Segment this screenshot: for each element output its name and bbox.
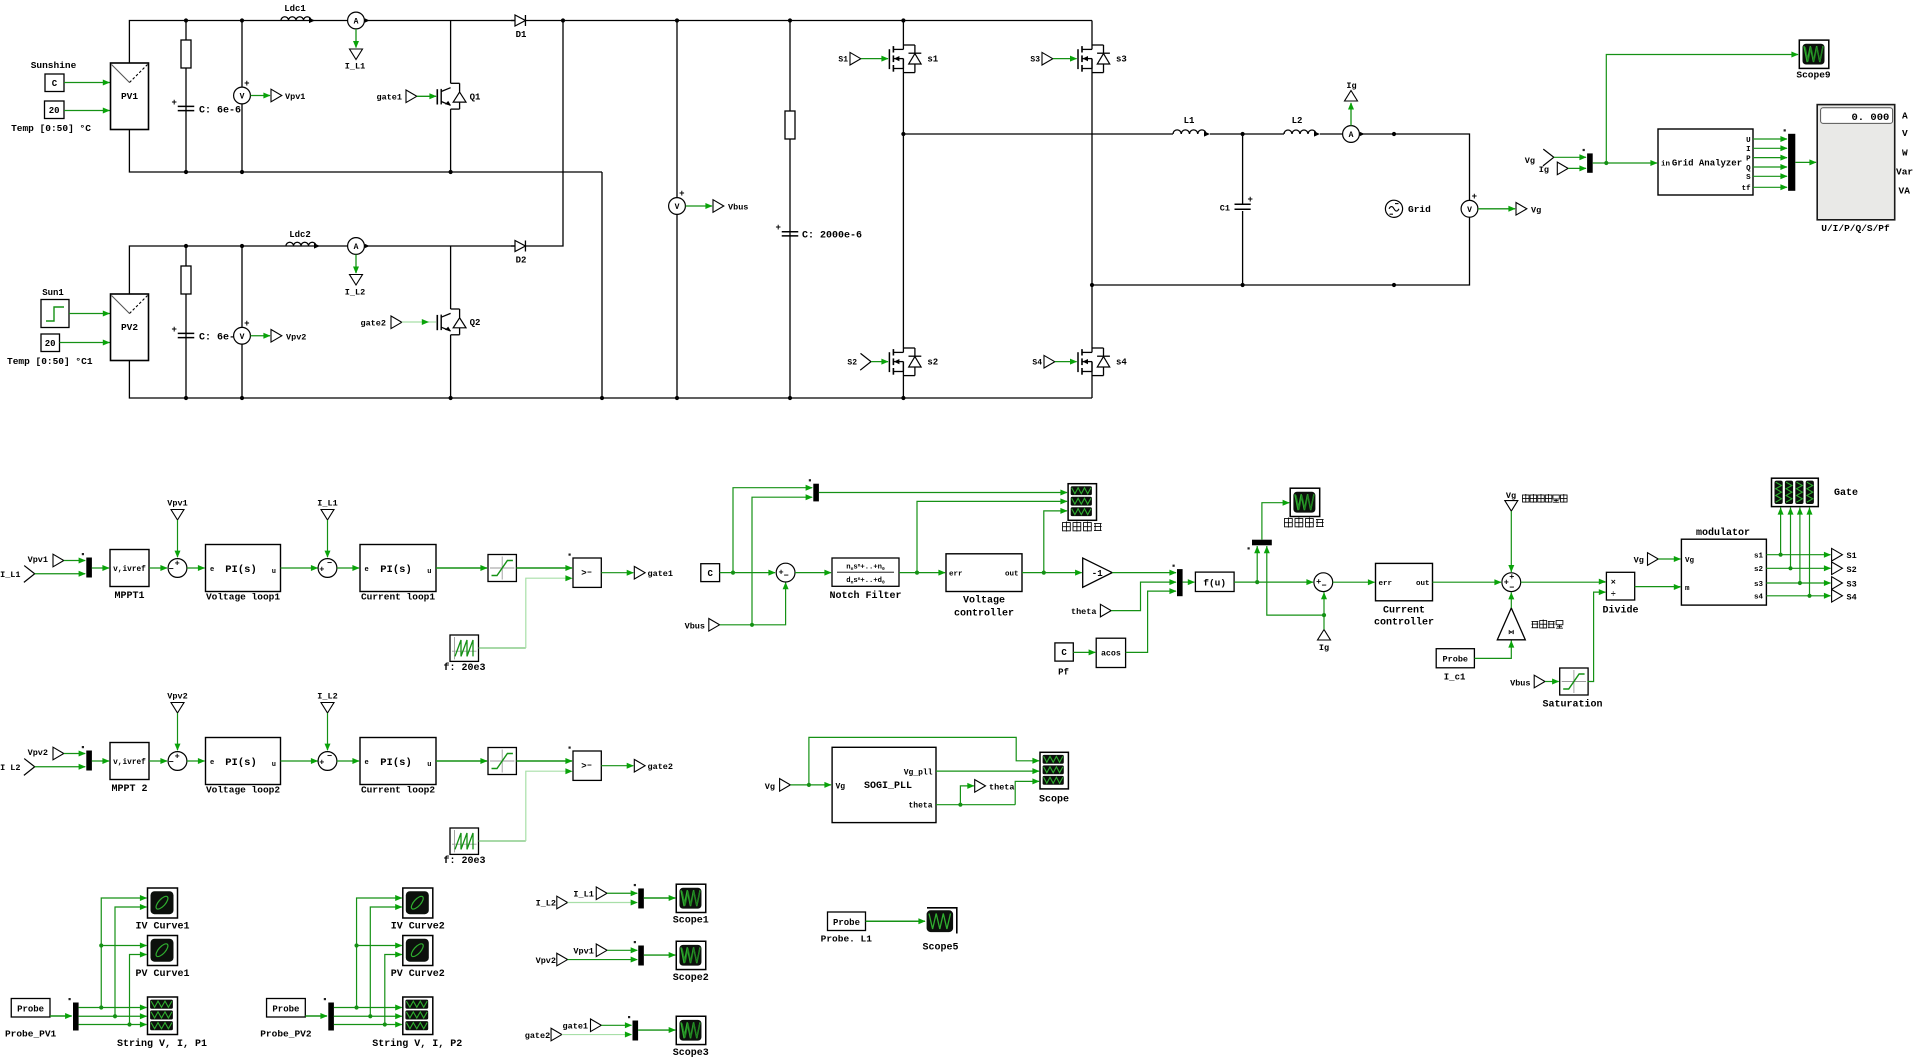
capacitor C: 2000e-6 (DC bus) <box>782 231 799 233</box>
svg-text:f: 20e3: f: 20e3 <box>443 662 485 674</box>
capacitor C: 6e-6 (PV2) <box>178 332 195 334</box>
wire Probe to demux <box>50 1015 72 1017</box>
svg-text:Scope5: Scope5 <box>922 943 958 954</box>
svg-text:I_L1: I_L1 <box>573 889 593 899</box>
comparator block <box>573 751 601 780</box>
svg-text:P: P <box>1746 155 1751 163</box>
output tag Vg <box>1516 203 1527 216</box>
wire Vg branch to PLL scope input1 <box>809 737 1039 785</box>
svg-text:Gate: Gate <box>1834 488 1858 499</box>
svg-text:C: 6e-6: C: 6e-6 <box>199 106 241 117</box>
wire mux to Grid Analyzer <box>1593 162 1657 164</box>
sum junction (current error) <box>318 559 337 578</box>
wire ref branch to scope mux <box>733 488 812 573</box>
output tag Vbus <box>713 200 724 213</box>
svg-text:C1: C1 <box>1220 204 1230 214</box>
svg-text:+: + <box>319 757 324 767</box>
svg-text:u: u <box>427 761 431 769</box>
wire S1 to s1 gate <box>861 58 888 60</box>
wire branch to current-scope mux port1 <box>1256 546 1258 582</box>
svg-text:−: − <box>327 752 332 762</box>
svg-text:I L2: I L2 <box>0 763 20 773</box>
wire gate2 to mux <box>562 1034 632 1036</box>
svg-text:−: − <box>169 565 174 575</box>
wire probe out2 (I) <box>79 1015 147 1017</box>
gain -1 <box>1083 558 1113 587</box>
svg-text:+: + <box>175 558 180 568</box>
wire L1 to L2 <box>1210 133 1284 135</box>
output tag Vpv1 <box>271 89 282 102</box>
svg-text:Current loop2: Current loop2 <box>361 785 435 796</box>
wire Pf to acos <box>1073 651 1095 653</box>
svg-text:Probe: Probe <box>17 1004 44 1014</box>
wire Vpv2 to mux <box>64 753 85 755</box>
svg-text:V: V <box>1902 128 1908 139</box>
svg-text:s4: s4 <box>1754 594 1764 602</box>
svg-text:+: + <box>1316 577 1321 587</box>
wire Divide to modulator <box>1635 586 1681 588</box>
block Current loop2 PI(s) <box>360 738 436 785</box>
svg-text:gate2: gate2 <box>648 762 674 772</box>
step source Sun1 <box>41 300 69 328</box>
svg-text:Voltage loop1: Voltage loop1 <box>206 592 280 603</box>
mux f(u) input <box>1177 569 1183 596</box>
sawtooth generator f: 20e3 <box>450 828 479 854</box>
wire saturation to comparator <box>516 760 572 762</box>
voltmeter V (Vpv1) <box>241 21 243 173</box>
wire Notch Filter to Voltage controller <box>899 572 945 574</box>
svg-text:I_L1: I_L1 <box>0 570 20 580</box>
svg-text:−: − <box>1509 583 1514 593</box>
svg-text:C: C <box>1061 648 1067 658</box>
wire theta branch to theta tag <box>960 786 974 805</box>
svg-text:+: + <box>776 223 781 233</box>
block Current controller <box>1376 563 1433 600</box>
block acos <box>1096 638 1125 667</box>
svg-text:e: e <box>210 566 214 574</box>
constant block C (Vbus ref) <box>701 564 720 582</box>
svg-text:+: + <box>1504 578 1509 588</box>
wire mux to current scope <box>1262 503 1289 540</box>
display U/I/P/Q/S/Pf <box>1817 105 1895 220</box>
block Grid Analyzer <box>1658 129 1753 195</box>
svg-text:D2: D2 <box>516 256 527 266</box>
svg-text:MPPT 2: MPPT 2 <box>111 784 147 795</box>
svg-text:tf: tf <box>1742 185 1752 193</box>
svg-text:Scope9: Scope9 <box>1796 70 1831 81</box>
mux voltage-scope <box>813 484 819 502</box>
wire A to I_L1 tag <box>355 29 357 48</box>
wire gain to mux4 port1 <box>1112 572 1176 574</box>
svg-text:+: + <box>1509 572 1514 582</box>
svg-text:Vpv1: Vpv1 <box>167 499 187 509</box>
svg-text:W: W <box>1902 147 1908 158</box>
wire Vg down to sum5 <box>1510 511 1512 572</box>
svg-text:20: 20 <box>45 339 56 349</box>
svg-text:s3: s3 <box>1116 55 1127 65</box>
svg-text:err: err <box>1379 580 1393 588</box>
mosfet s3 <box>1077 49 1079 69</box>
svg-text:Probe: Probe <box>1443 655 1469 665</box>
wire saturation to comparator <box>516 567 572 569</box>
svg-text:Pf: Pf <box>1058 668 1069 678</box>
wire mux to MPPT <box>92 760 109 762</box>
svg-text:Vpv2: Vpv2 <box>167 692 187 702</box>
scope Gate <box>1772 478 1819 506</box>
svg-text:Q: Q <box>1746 165 1751 173</box>
transistor Q1 (IGBT) <box>450 21 452 84</box>
constant block 20 (Temp1) <box>41 334 60 352</box>
voltmeter V (Vg) <box>1461 200 1478 217</box>
wire Vbus to sum3 bottom <box>720 583 786 625</box>
wire Ig to mux <box>1568 167 1586 169</box>
svg-text:C: C <box>52 79 58 89</box>
block Probe (Probe. L1) <box>828 912 866 931</box>
output tag gate2 <box>634 759 645 772</box>
svg-text:IV Curve2: IV Curve2 <box>391 922 445 933</box>
transistor Q2 (IGBT) <box>450 246 452 309</box>
svg-text:Vpv2: Vpv2 <box>286 333 306 343</box>
svg-text:I_L1: I_L1 <box>345 62 365 72</box>
svg-text:S: S <box>1746 174 1751 182</box>
wire C to sum3 <box>720 572 775 574</box>
wire Vbus to Saturation <box>1545 681 1559 683</box>
constant block 20 (Temp) <box>45 101 65 119</box>
wire gate1 to mux <box>601 1024 631 1026</box>
svg-text:gate2: gate2 <box>525 1031 551 1041</box>
wire Saturation to Divide <box>1587 592 1605 681</box>
svg-text:Q1: Q1 <box>470 92 481 102</box>
svg-text:Probe. L1: Probe. L1 <box>821 934 873 945</box>
svg-text:PV Curve1: PV Curve1 <box>135 969 189 980</box>
mux grid-analyzer output <box>1788 134 1795 191</box>
wire sum2 to current loop <box>337 567 359 569</box>
svg-text:S4: S4 <box>1847 592 1857 602</box>
svg-text:controller: controller <box>1374 617 1434 629</box>
scope Scope3 <box>676 1016 706 1044</box>
svg-text:Vpv1: Vpv1 <box>28 555 48 565</box>
wire Current controller to sum5 <box>1433 581 1502 583</box>
wire probe out3 (P) <box>79 1024 147 1026</box>
svg-text:C: C <box>707 569 713 579</box>
wire bridge left leg <box>902 21 904 46</box>
svg-text:v,ivref: v,ivref <box>113 566 146 574</box>
voltmeter V (Vpv2) <box>241 246 243 398</box>
svg-text:u: u <box>427 568 431 576</box>
wire MPPT to sum1 <box>149 760 167 762</box>
wire Vpv2 to sum1 <box>177 713 179 750</box>
mosfet s1 <box>888 49 890 69</box>
wire mux to Scope2 <box>644 954 675 956</box>
svg-text:−: − <box>327 559 332 569</box>
scope Scope2 <box>676 941 706 969</box>
wire I L2 to mux <box>35 766 85 768</box>
svg-text:Probe: Probe <box>272 1004 299 1014</box>
wire Vg to mux <box>1554 156 1586 158</box>
saturation block <box>488 748 516 775</box>
svg-text:PI(s): PI(s) <box>380 757 412 769</box>
sum junction sum3 (Vbus error) <box>776 563 795 582</box>
mux mppt input <box>86 751 92 771</box>
scope String V, I, P2 <box>403 997 433 1035</box>
block Probe (Probe_PV2) <box>267 999 306 1018</box>
block Notch Filter <box>832 558 899 586</box>
output tag theta <box>975 780 986 793</box>
svg-text:+: + <box>172 98 177 108</box>
svg-text:Vpv1: Vpv1 <box>285 92 305 102</box>
svg-text:Vbus: Vbus <box>685 621 705 631</box>
ammeter A (Ig) <box>1343 126 1360 143</box>
voltmeter V (Vbus) <box>676 21 678 399</box>
svg-text:u: u <box>272 761 276 769</box>
wire mux to display <box>1795 161 1816 163</box>
svg-text:gate1: gate1 <box>648 569 674 579</box>
svg-text:Vg_pll: Vg_pll <box>904 768 933 777</box>
svg-text:Probe: Probe <box>833 918 860 928</box>
inductor Ldc1 <box>281 17 311 21</box>
svg-text:Notch Filter: Notch Filter <box>829 590 901 602</box>
diode D1 <box>511 20 515 22</box>
wire comparator to gate1 <box>601 572 633 574</box>
comparator block <box>573 558 601 587</box>
wire Vpv1 to sum1 <box>177 520 179 557</box>
mux Scope1 <box>638 888 644 908</box>
scope IV Curve1 <box>148 888 178 918</box>
svg-text:String V, I, P1: String V, I, P1 <box>117 1038 207 1050</box>
svg-text:V: V <box>240 333 245 342</box>
wire branch to Scope9 <box>1606 55 1798 164</box>
wire comparator to gate2 <box>601 765 633 767</box>
wire bridge midpoint left to L1 <box>903 133 1173 135</box>
svg-text:+: + <box>172 325 177 335</box>
AC source Grid <box>1385 200 1402 217</box>
scope Scope (PLL) <box>1040 752 1068 789</box>
output tag I_L2 (down) <box>350 275 363 286</box>
wire Probe to gain <box>1474 641 1511 659</box>
wire theta to PLL scope input3 <box>1015 781 1039 804</box>
wire acos to mux4 port3 <box>1126 591 1176 652</box>
svg-text:Scope3: Scope3 <box>673 1048 709 1059</box>
wire 20 to PV1 <box>64 110 110 112</box>
svg-text:SOGI_PLL: SOGI_PLL <box>864 781 912 792</box>
wire Ig up to sum4 <box>1323 592 1325 629</box>
wire PV2 top rail <box>129 246 515 294</box>
svg-text:Ig: Ig <box>1346 81 1356 91</box>
svg-text:A: A <box>354 243 359 252</box>
svg-text:s4: s4 <box>1116 358 1127 368</box>
scope Scope1 <box>676 884 706 912</box>
svg-text:Sun1: Sun1 <box>42 288 64 298</box>
svg-text:Vg: Vg <box>1634 556 1644 566</box>
svg-text:Scope1: Scope1 <box>673 916 709 927</box>
svg-text:A: A <box>1349 131 1354 140</box>
svg-text:C: 2000e-6: C: 2000e-6 <box>802 231 862 242</box>
svg-text:theta: theta <box>1071 607 1097 617</box>
svg-text:gate2: gate2 <box>360 319 386 329</box>
wire theta to mux4 port2 <box>1111 582 1176 611</box>
scope PV Curve2 <box>403 936 433 966</box>
svg-text:S2: S2 <box>847 359 857 368</box>
svg-text:PI(s): PI(s) <box>225 757 257 769</box>
input tag Ig (up) <box>1318 630 1331 641</box>
svg-text:÷: ÷ <box>1611 589 1616 599</box>
mux grid-analyzer input <box>1587 153 1593 172</box>
wire sawtooth to comparator <box>479 840 526 842</box>
wire notch branch to scope 2nd input <box>917 501 1067 572</box>
svg-text:+: + <box>1248 195 1253 205</box>
block Voltage loop1 PI(s) <box>206 545 281 592</box>
wire S4 to s4 gate <box>1055 361 1077 363</box>
output tags S1 S2 S3 S4 <box>1832 548 1843 561</box>
svg-text:A: A <box>354 18 359 27</box>
svg-text:err: err <box>949 570 963 578</box>
wire current loop to saturation <box>436 760 487 762</box>
svg-text:Vpv2: Vpv2 <box>28 748 48 758</box>
wire probe out3 (P) <box>334 1024 402 1026</box>
svg-text:Probe_PV2: Probe_PV2 <box>260 1029 312 1040</box>
svg-text:PI(s): PI(s) <box>380 564 412 576</box>
wire PV1-neg to PV2-neg link <box>601 172 603 398</box>
svg-text:Current loop1: Current loop1 <box>361 592 435 603</box>
wire D2 cathode to top rail riser <box>526 21 564 247</box>
wire I_L1 to mux <box>607 892 637 894</box>
svg-text:L1: L1 <box>1184 116 1195 126</box>
svg-text:m: m <box>1685 585 1690 593</box>
svg-text:Scope: Scope <box>1039 795 1069 806</box>
svg-text:S3: S3 <box>1030 56 1040 65</box>
svg-text:PV1: PV1 <box>121 91 138 102</box>
scope Scope9 <box>1799 40 1829 68</box>
mux current-scope (horizontal) <box>1252 540 1272 546</box>
wire Ig branch to current-scope mux port2 <box>1267 546 1324 615</box>
svg-text:L2: L2 <box>1292 116 1303 126</box>
wire V to Vpv1 tag <box>251 95 271 97</box>
scope dianliu-genzong (current tracking) <box>1290 488 1320 516</box>
svg-text:modulator: modulator <box>1696 527 1750 539</box>
svg-text:in: in <box>1661 161 1671 169</box>
wire mux to scope 1st input <box>819 492 1067 494</box>
wire gate2 to Q2 (light) <box>402 321 436 323</box>
svg-text:A: A <box>1902 110 1908 121</box>
wire mux to MPPT <box>92 567 109 569</box>
ammeter A (I_L1) <box>348 12 365 29</box>
svg-text:+: + <box>175 751 180 761</box>
sum junction sum5 (feedforward) <box>1502 573 1521 592</box>
block SOGI_PLL <box>832 747 936 822</box>
wire sum4 to Current controller <box>1333 581 1375 583</box>
svg-text:V: V <box>240 93 245 102</box>
svg-text:S3: S3 <box>1847 580 1857 590</box>
wire theta out <box>936 804 1015 806</box>
PV array block PV2 <box>111 294 149 361</box>
resistor R-pv2 <box>185 246 187 398</box>
wire Vg to modulator <box>1658 558 1680 560</box>
svg-text:Grid: Grid <box>1408 204 1431 215</box>
svg-text:+: + <box>1472 192 1477 202</box>
wire Vpv2 to mux <box>568 959 638 961</box>
svg-text:Grid Analyzer: Grid Analyzer <box>1672 159 1742 169</box>
wire I_L2 to mux <box>568 902 638 904</box>
svg-text:PI(s): PI(s) <box>225 564 257 576</box>
wire Vg to SOGI_PLL <box>790 784 831 786</box>
wire sawtooth to comparator <box>479 647 526 649</box>
svg-text:−: − <box>169 758 174 768</box>
scope Scope5 <box>927 908 957 934</box>
wire PV1 bottom rail <box>129 130 602 173</box>
svg-text:U: U <box>1746 137 1751 145</box>
scope dianya-genzong (voltage tracking) <box>1068 484 1096 521</box>
scope String V, I, P1 <box>148 997 178 1035</box>
svg-text:Scope2: Scope2 <box>673 973 709 984</box>
svg-text:U/I/P/Q/S/Pf: U/I/P/Q/S/Pf <box>1821 223 1890 234</box>
capacitor C1 branch <box>1242 134 1244 204</box>
svg-text:Vg: Vg <box>836 783 846 792</box>
wire I_L1 to mux <box>35 573 85 575</box>
svg-text:S1: S1 <box>838 56 848 65</box>
wire mux to Scope1 <box>644 897 675 899</box>
svg-text:−: − <box>1322 581 1327 591</box>
svg-text:−: − <box>784 571 789 581</box>
wire Vpv1 to mux <box>607 949 637 951</box>
gain youyuan-zuni (active damping) <box>1497 608 1525 640</box>
svg-text:theta: theta <box>989 783 1015 793</box>
svg-text:f(u): f(u) <box>1203 577 1226 588</box>
wire current loop to saturation <box>436 567 487 569</box>
mux Scope3 <box>633 1021 639 1041</box>
constant block C (Sunshine) <box>45 74 64 92</box>
mux Scope2 <box>638 946 644 966</box>
svg-text:Vbus: Vbus <box>728 203 748 213</box>
wire Voltage controller to gain -1 <box>1022 572 1082 574</box>
demux probe <box>73 1003 79 1031</box>
wire PV2 bottom rail <box>129 361 1092 399</box>
svg-text:–: – <box>587 567 592 577</box>
saturation block (Vbus) <box>1560 668 1588 695</box>
svg-text:Probe_PV1: Probe_PV1 <box>5 1029 57 1040</box>
wire PV1 top rail <box>129 21 1092 64</box>
svg-text:+: + <box>679 189 684 199</box>
block MPPT 2 <box>110 743 149 780</box>
wire Vbus branch to scope mux <box>752 497 812 625</box>
block Current loop1 PI(s) <box>360 545 436 592</box>
wire I_L1 to sum2 <box>327 520 329 557</box>
block Probe I_c1 <box>1436 649 1474 668</box>
svg-text:S2: S2 <box>1847 565 1857 575</box>
wire out branch to scope 3rd input <box>1044 511 1067 573</box>
resistor R-dc <box>789 21 791 399</box>
svg-text:20: 20 <box>49 106 60 116</box>
wires modulator outputs s1-s4 <box>1766 554 1830 556</box>
svg-text:+: + <box>244 319 249 329</box>
svg-text:Vg: Vg <box>1525 156 1535 166</box>
wires Grid Analyzer outputs to mux <box>1753 138 1787 140</box>
block Probe (Probe_PV1) <box>11 999 50 1018</box>
svg-text:out: out <box>1416 580 1430 588</box>
svg-text:Var: Var <box>1896 166 1913 177</box>
svg-text:Q2: Q2 <box>470 318 481 328</box>
scope PV Curve1 <box>148 936 178 966</box>
svg-text:Ig: Ig <box>1319 643 1329 653</box>
svg-text:Vg: Vg <box>765 782 775 792</box>
svg-text:D1: D1 <box>516 30 527 40</box>
svg-text:IV Curve1: IV Curve1 <box>135 922 189 933</box>
sum junction sum4 (grid current error) <box>1314 573 1333 592</box>
svg-text:Vpv1: Vpv1 <box>573 947 593 957</box>
svg-text:String V, I, P2: String V, I, P2 <box>372 1038 462 1050</box>
svg-text:Saturation: Saturation <box>1542 699 1602 711</box>
wire grid bottom rail <box>1092 217 1470 285</box>
svg-text:v,ivref: v,ivref <box>113 759 146 767</box>
